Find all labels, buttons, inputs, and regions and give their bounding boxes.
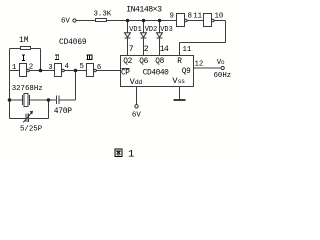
svg-text:ss: ss: [178, 78, 186, 85]
svg-text:6V: 6V: [132, 112, 141, 120]
svg-text:10: 10: [215, 13, 224, 21]
svg-text:R: R: [177, 58, 182, 66]
svg-text:5/25P: 5/25P: [20, 125, 43, 133]
svg-text:VD1: VD1: [129, 26, 141, 34]
svg-text:2: 2: [144, 45, 149, 54]
svg-text:11: 11: [183, 46, 192, 54]
svg-text:14: 14: [160, 45, 169, 54]
svg-text:o: o: [221, 59, 225, 66]
svg-text:7: 7: [129, 45, 134, 54]
svg-text:9: 9: [170, 13, 174, 21]
svg-text:6: 6: [97, 64, 101, 72]
svg-text:6V: 6V: [61, 18, 70, 26]
svg-text:Q8: Q8: [155, 58, 164, 66]
svg-text:dd: dd: [135, 79, 143, 86]
svg-text:Q2: Q2: [123, 58, 132, 66]
svg-text:470P: 470P: [54, 107, 73, 116]
svg-text:2: 2: [29, 64, 33, 72]
svg-text:32768Hz: 32768Hz: [12, 85, 43, 93]
svg-text:12: 12: [195, 61, 204, 69]
svg-text:8: 8: [188, 13, 192, 21]
svg-text:3: 3: [48, 64, 52, 72]
svg-text:3.3K: 3.3K: [94, 11, 112, 19]
svg-text:IN4148×3: IN4148×3: [126, 6, 162, 15]
svg-text:VD3: VD3: [160, 26, 172, 34]
svg-text:Q9: Q9: [182, 68, 191, 76]
svg-text:CP: CP: [121, 70, 130, 78]
svg-text:1: 1: [128, 148, 134, 160]
svg-text:VD2: VD2: [145, 26, 157, 34]
svg-text:Q6: Q6: [139, 58, 148, 66]
svg-text:1: 1: [12, 64, 17, 72]
svg-text:CD4069: CD4069: [59, 39, 87, 47]
svg-text:5: 5: [80, 63, 84, 71]
svg-text:60Hz: 60Hz: [214, 72, 232, 80]
svg-text:11: 11: [193, 13, 202, 21]
svg-text:CD4040: CD4040: [143, 70, 169, 78]
svg-text:4: 4: [65, 63, 70, 71]
svg-text:1M: 1M: [19, 36, 29, 45]
